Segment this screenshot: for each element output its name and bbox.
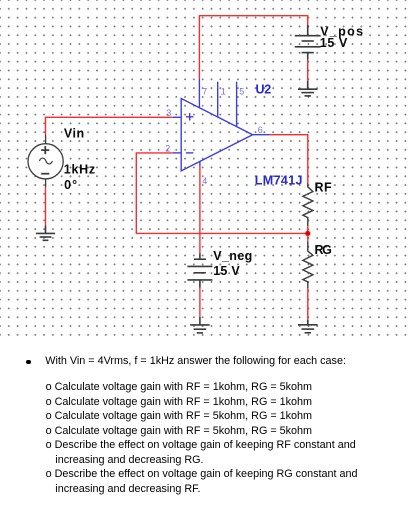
svg-text:2: 2	[165, 144, 170, 154]
junction node RF/RG/feedback	[305, 231, 310, 236]
wire junction to RG top lead	[307, 236, 309, 242]
svg-text:15 V: 15 V	[213, 264, 240, 278]
wire pin 4 to V_neg battery	[199, 167, 201, 254]
label 0 deg	[64, 178, 77, 192]
question text block	[26, 360, 31, 365]
wire pin 7 to V_pos battery	[199, 16, 307, 79]
pin label 2	[165, 144, 170, 154]
wire V_pos battery to ground (red middle segment)	[307, 60, 309, 82]
wire Vin source to ground (red middle segment)	[45, 187, 47, 226]
label 1kHz	[64, 163, 95, 177]
op-amp + input marker	[186, 113, 193, 120]
ground (below V_pos)	[298, 81, 318, 96]
wire pin 2 feedback to RF/RG junction	[136, 153, 306, 234]
wire Vin to pin 3 (non-inverting input)	[46, 117, 173, 135]
pin 2 stub	[173, 152, 181, 154]
wire V_neg battery to ground (red middle segment)	[199, 288, 201, 318]
pin 1 stub	[217, 82, 219, 118]
svg-text:7: 7	[202, 86, 207, 96]
pin 5 stub	[236, 82, 238, 127]
svg-text:6: 6	[258, 125, 263, 135]
label 15 V (V_neg)	[213, 264, 240, 278]
svg-text:RG: RG	[315, 243, 332, 257]
wire pin 6 output to RF	[269, 135, 308, 184]
label RG	[315, 243, 332, 257]
label RF	[315, 180, 333, 194]
svg-text:1kHz: 1kHz	[64, 163, 95, 177]
svg-text:LM741J: LM741J	[255, 174, 303, 188]
svg-text:3: 3	[166, 108, 171, 118]
label V_pos	[320, 25, 363, 39]
pin 3 stub	[173, 116, 181, 118]
svg-text:1: 1	[221, 86, 226, 96]
AC voltage source Vin	[28, 135, 63, 187]
resistor RG	[303, 241, 313, 288]
ground (below RG)	[298, 320, 318, 333]
label V_neg	[213, 249, 252, 263]
wire RF bottom lead to junction	[307, 226, 309, 231]
svg-text:4: 4	[202, 176, 207, 186]
pin 7 stub	[198, 79, 200, 108]
op-amp - input marker	[186, 152, 193, 154]
pin 4 stub	[199, 161, 201, 166]
svg-text:U2: U2	[256, 83, 272, 97]
op-amp U2 triangle	[181, 99, 252, 171]
pin label 7	[202, 86, 207, 96]
pin label 6	[258, 125, 263, 135]
svg-text:Vin: Vin	[64, 127, 84, 141]
battery V_pos	[295, 25, 321, 60]
ground (below V_neg)	[190, 317, 210, 333]
pin label 3	[166, 108, 171, 118]
label 15 V (V_pos)	[320, 36, 348, 50]
label LM741J	[255, 174, 303, 188]
resistor RF	[303, 183, 313, 226]
pin label 1	[221, 86, 226, 96]
svg-text:15 V: 15 V	[320, 36, 348, 50]
battery V_neg	[187, 254, 212, 288]
svg-text:5: 5	[239, 86, 244, 96]
pin label 5	[239, 86, 244, 96]
label Vin	[64, 127, 84, 141]
label U2	[256, 83, 272, 97]
pin 6 stub	[253, 134, 269, 136]
pin label 4	[202, 176, 207, 186]
ground (below Vin)	[36, 226, 55, 241]
svg-text:RF: RF	[315, 180, 333, 194]
wire RG to ground (red middle segment)	[307, 288, 309, 319]
svg-text:V_neg: V_neg	[213, 249, 252, 263]
svg-text:0°: 0°	[64, 178, 77, 192]
